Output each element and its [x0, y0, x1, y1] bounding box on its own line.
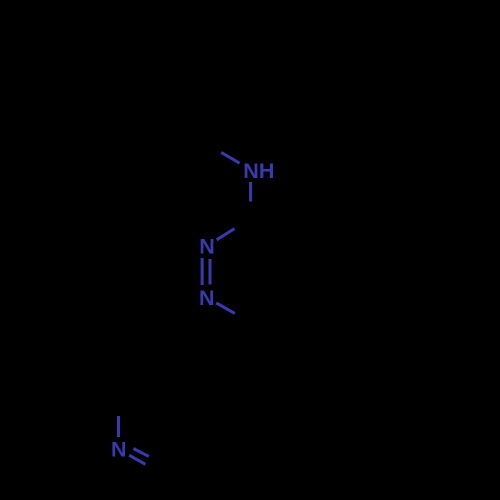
svg-text:N: N: [199, 235, 215, 259]
svg-text:N: N: [199, 286, 215, 310]
svg-text:N: N: [111, 438, 127, 462]
svg-text:NH: NH: [243, 159, 274, 183]
